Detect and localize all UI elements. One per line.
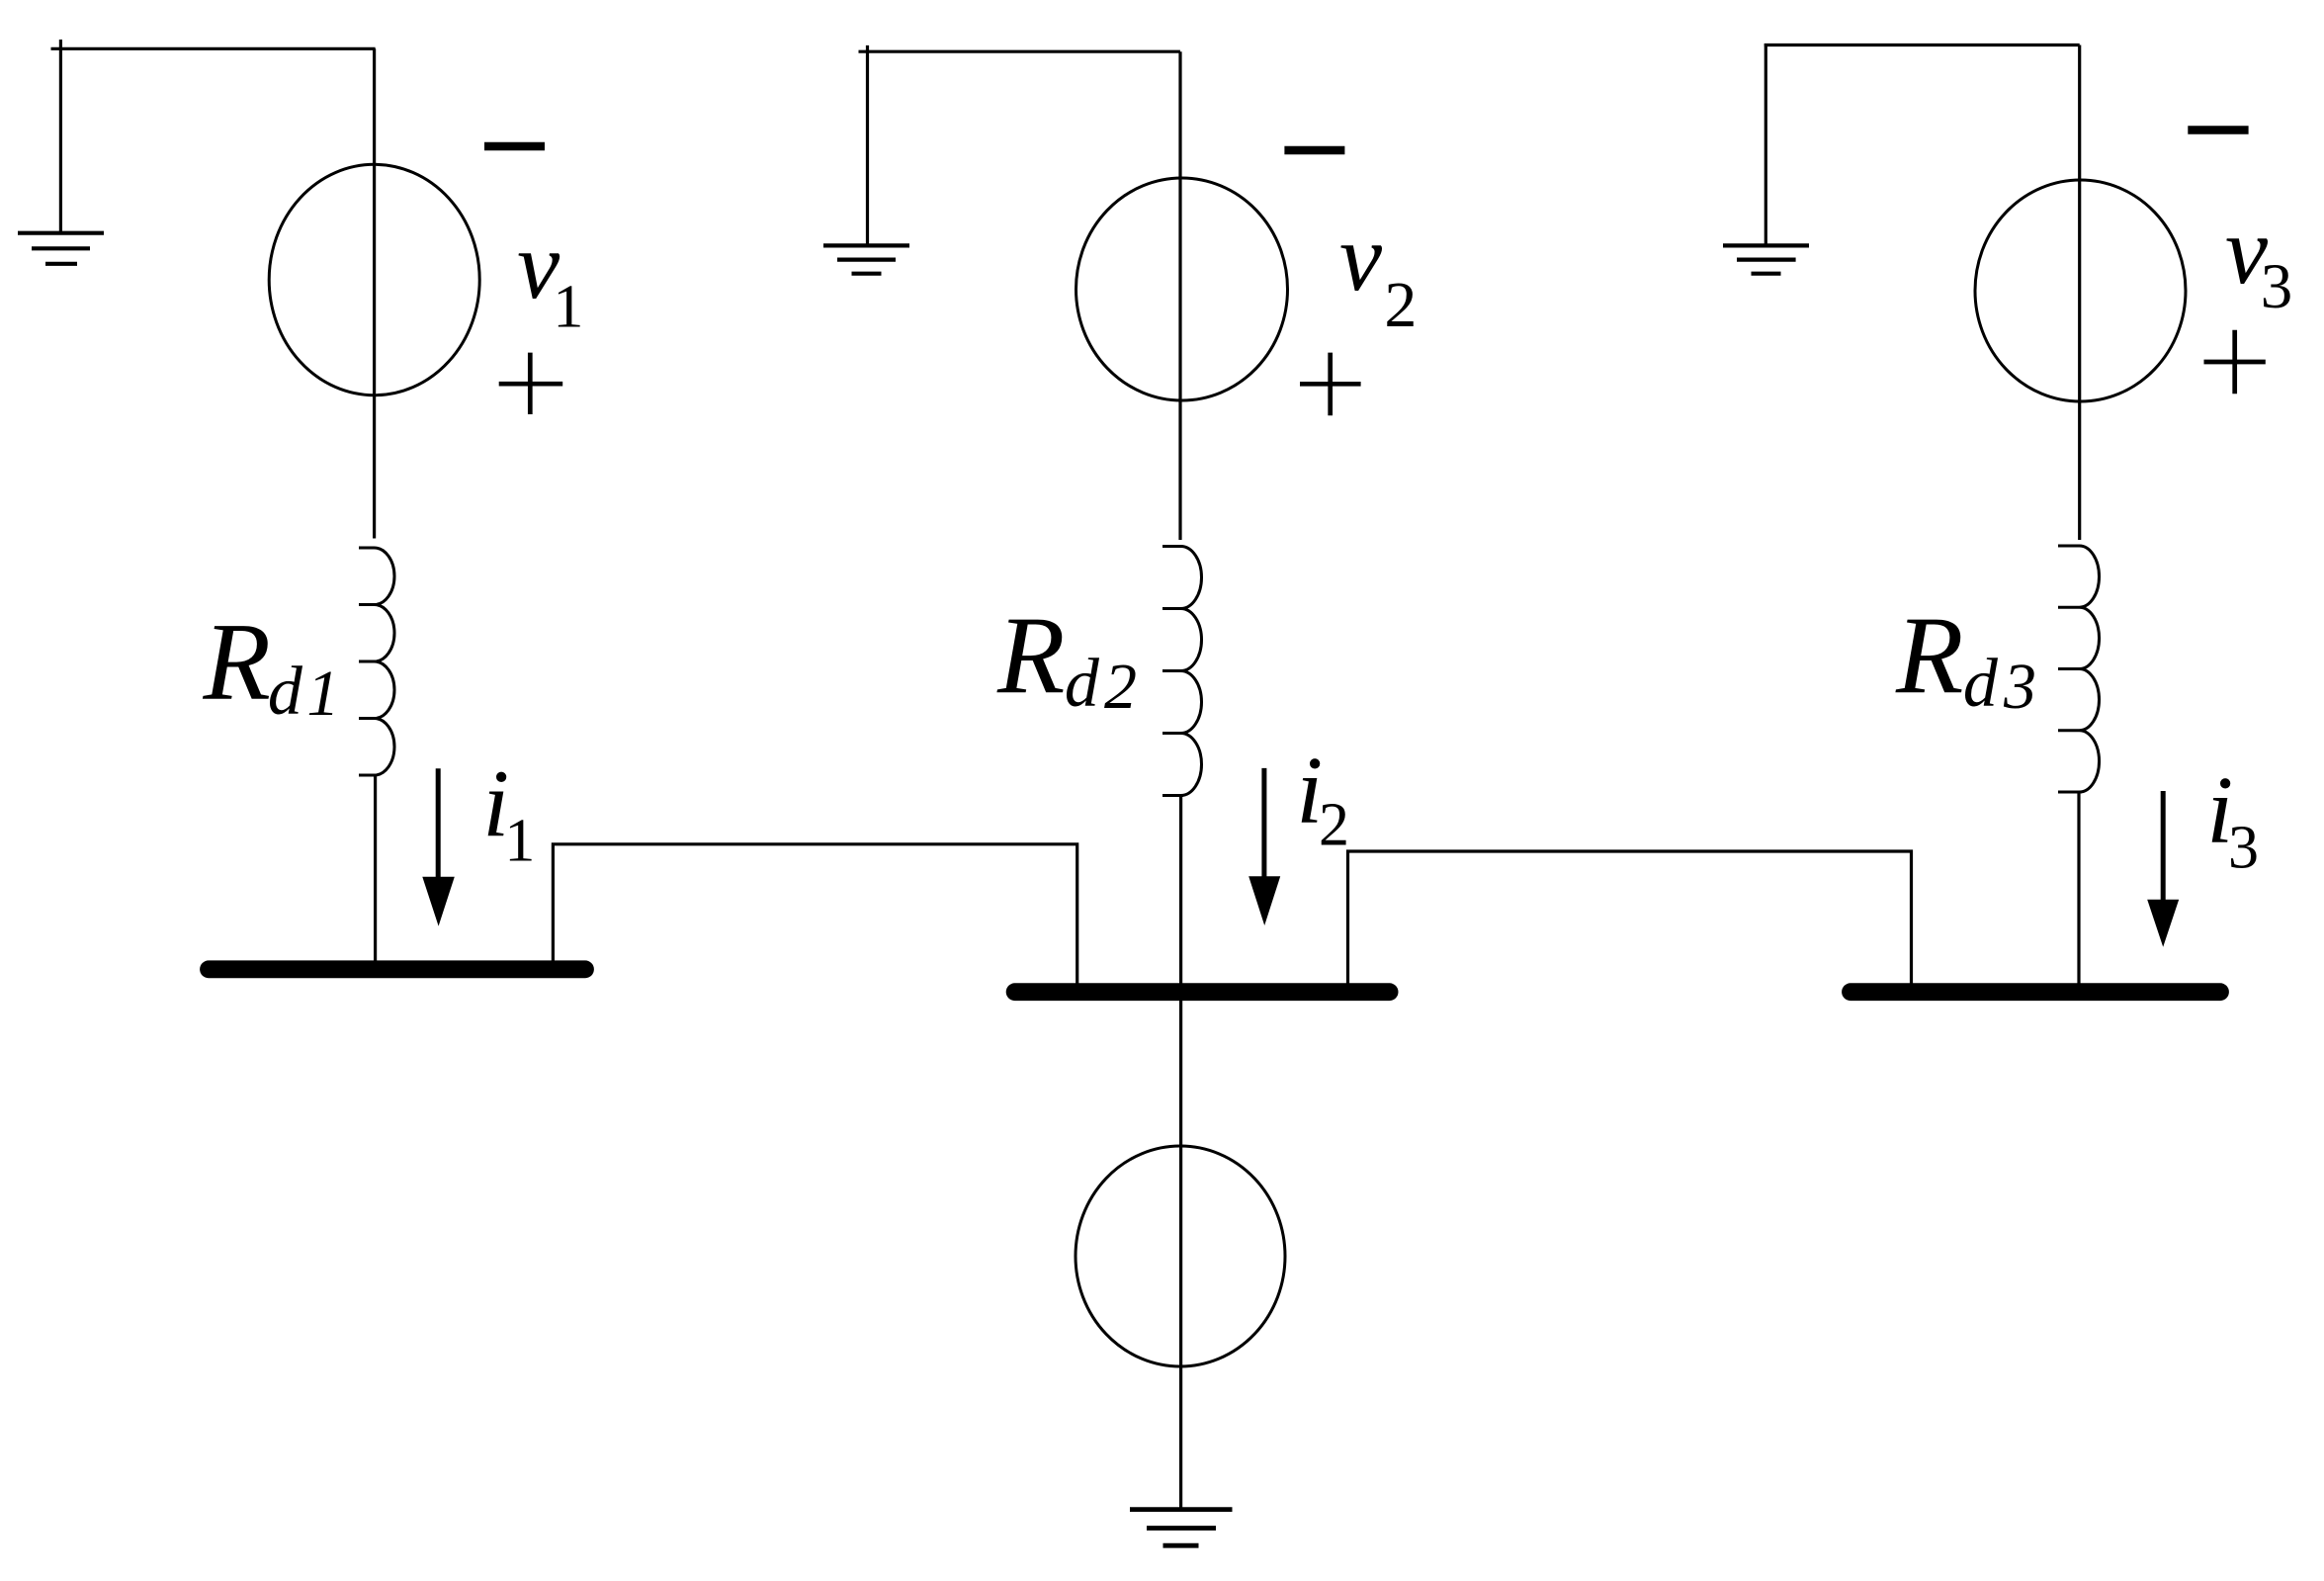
svg-text:2: 2 (1384, 269, 1417, 341)
label v3 (2225, 198, 2292, 322)
wire: branch1 ground riser (59, 40, 62, 233)
resistor Rd1 (coil) (359, 548, 394, 775)
resistor Rd2 (coil) (1162, 547, 1202, 796)
svg-text:R: R (203, 601, 271, 724)
svg-text:3: 3 (2261, 251, 2293, 322)
svg-text:2: 2 (1104, 651, 1137, 723)
resistor Rd3 (coil) (2058, 546, 2100, 792)
svg-text:d: d (268, 654, 303, 730)
wire: branch1 vertical upper (373, 48, 376, 538)
svg-text:R: R (1895, 595, 1963, 718)
label minus sign of v3 (2188, 126, 2248, 134)
svg-text:d: d (1963, 646, 1999, 722)
label Rd1 (203, 601, 340, 730)
wire: step from bus1 to bus2 (553, 844, 1076, 985)
wire: branch2 top horizontal (859, 50, 1180, 53)
svg-text:3: 3 (2003, 651, 2036, 723)
voltage source at bottom (circle) (1076, 1146, 1285, 1366)
voltage source v3 (circle) (1975, 180, 2186, 401)
svg-text:2: 2 (1319, 792, 1349, 859)
wire: branch1 top horizontal (51, 47, 376, 50)
svg-text:R: R (996, 595, 1065, 718)
ground G1 (18, 233, 104, 264)
wire: branch3 top horizontal (1765, 44, 2080, 46)
wire: branch3 ground riser (1765, 44, 1767, 245)
label plus sign of v2 (1300, 353, 1361, 416)
svg-text:v: v (1339, 205, 1383, 310)
current arrow i2 (1248, 768, 1280, 925)
label v2 (1339, 205, 1417, 341)
label minus sign of v1 (484, 142, 545, 151)
voltage source v2 (circle) (1076, 178, 1288, 400)
ground G2 (823, 245, 909, 273)
ground at bottom (1130, 1510, 1233, 1546)
current arrow i3 (2147, 791, 2179, 947)
wire: branch3 vertical lower (2077, 792, 2080, 985)
voltage source v1 (circle) (269, 164, 479, 395)
wire: branch3 vertical upper (2078, 45, 2081, 541)
bus bar node 3 (1851, 983, 2220, 1001)
svg-text:1: 1 (553, 274, 583, 341)
svg-text:1: 1 (306, 658, 339, 730)
wire: branch2 vertical lower through bus to bottom ground (1179, 796, 1182, 1509)
wire: branch1 vertical lower (374, 775, 377, 962)
label i1 (482, 751, 535, 875)
bus bar node 1 (209, 960, 585, 978)
label Rd3 (1895, 595, 2036, 724)
label plus sign of v1 (499, 353, 563, 414)
svg-text:3: 3 (2228, 815, 2259, 882)
wire: step from bus2 to bus3 (1348, 851, 1912, 985)
label v1 (517, 213, 583, 341)
svg-text:1: 1 (504, 808, 535, 875)
bus bar node 2 (1015, 983, 1390, 1001)
label i2 (1296, 738, 1349, 859)
wire: branch2 vertical upper (1178, 51, 1181, 540)
label minus sign of v2 (1284, 146, 1344, 155)
label plus sign of v3 (2204, 330, 2266, 395)
svg-text:d: d (1065, 646, 1100, 722)
label i3 (2206, 757, 2259, 882)
current arrow i1 (422, 768, 455, 925)
ground G3 (1723, 245, 1809, 273)
label Rd2 (996, 595, 1137, 724)
wire: branch2 ground riser (866, 45, 869, 245)
